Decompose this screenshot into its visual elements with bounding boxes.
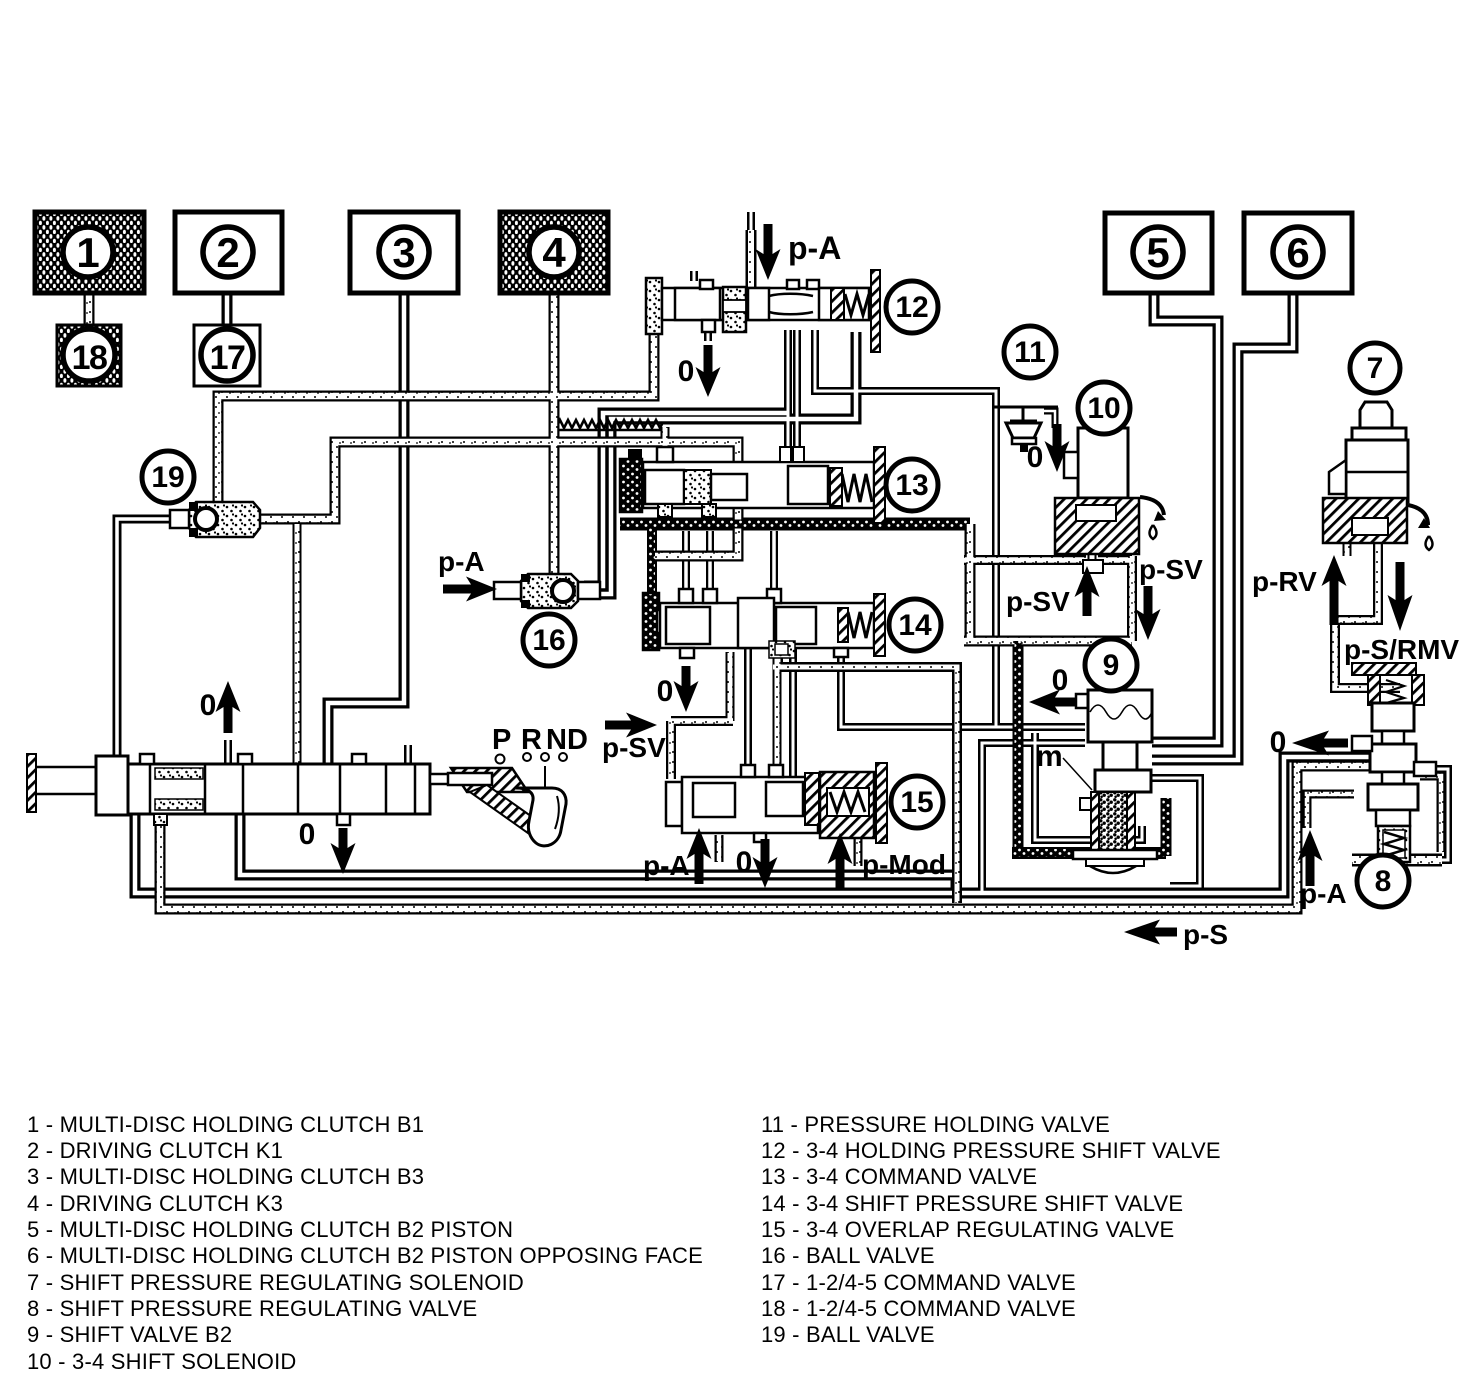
svg-text:0: 0: [200, 689, 217, 722]
valve8 right white loop: [1416, 769, 1448, 860]
stipple strips: [155, 768, 203, 779]
svg-text:D: D: [567, 724, 588, 756]
svg-text:18 - 1-2/4-5 COMMAND VALVE: 18 - 1-2/4-5 COMMAND VALVE: [761, 1296, 1076, 1321]
valve14 to valve15 B: [789, 648, 797, 777]
valve14 right stipple drop: [773, 655, 782, 772]
solenoid 7: [1323, 402, 1433, 550]
wire valve13 to valve14 A: [682, 531, 690, 594]
valve12 top stubs: [690, 271, 698, 281]
label circle 12: [886, 281, 938, 333]
arrow p-SV up: [1075, 566, 1100, 616]
svg-text:19 - BALL VALVE: 19 - BALL VALVE: [761, 1322, 935, 1347]
wire box5 to valve9: [1152, 293, 1218, 742]
svg-text:0: 0: [657, 675, 674, 708]
svg-text:7 - SHIFT PRESSURE REGULATING: 7 - SHIFT PRESSURE REGULATING SOLENOID: [27, 1270, 524, 1295]
lever quadrant: [516, 788, 566, 846]
label circle 1: [63, 227, 113, 277]
wire box2-box17: [222, 293, 233, 325]
svg-text:3: 3: [392, 229, 415, 276]
svg-text:8: 8: [1375, 865, 1392, 898]
spring housing valve 15: [820, 772, 874, 838]
svg-text:6 - MULTI-DISC HOLDING CLUTCH: 6 - MULTI-DISC HOLDING CLUTCH B2 PISTON …: [27, 1243, 703, 1268]
circled numbers: [63, 227, 1409, 907]
wire valve13 to valve14 C: [770, 531, 778, 594]
valve 8: [1352, 663, 1436, 862]
svg-text:p-SV: p-SV: [1139, 554, 1203, 585]
svg-text:P: P: [492, 724, 511, 756]
svg-text:p-S/RMV: p-S/RMV: [1344, 634, 1459, 665]
svg-text:19: 19: [151, 461, 184, 494]
svg-text:15: 15: [900, 786, 933, 819]
label circle 6: [1273, 227, 1323, 277]
svg-text:1 - MULTI-DISC HOLDING CLUTCH: 1 - MULTI-DISC HOLDING CLUTCH B1: [27, 1112, 424, 1137]
clutch box B2 opposing: [1244, 213, 1352, 293]
bottom bus B: [135, 757, 1372, 893]
svg-text:0: 0: [736, 846, 753, 879]
p-A feed valve12: [746, 230, 757, 289]
clutch box K3: [500, 212, 608, 293]
svg-text:p-A: p-A: [438, 546, 485, 577]
valve12 drain port: [702, 320, 715, 332]
clutch box B3: [350, 212, 458, 293]
wire valve14 to valve9 left: [841, 655, 1085, 727]
svg-text:p-SV: p-SV: [602, 732, 666, 763]
solenoid10 output stub: [1088, 552, 1097, 572]
svg-text:p-A: p-A: [1300, 878, 1347, 909]
WIRES-STIPPLE: [89, 212, 1448, 909]
wire enclosure to valve9 bottom: [1013, 641, 1024, 852]
wire channel interiors (stipple fill): [89, 230, 1442, 909]
valve9 inner U: [1035, 733, 1142, 840]
arrow down solenoid7 right: [1388, 562, 1413, 631]
arrow 0 down manual valve: [331, 828, 356, 874]
svg-text:m: m: [1036, 740, 1063, 773]
drip arrow solenoid 7: [1408, 505, 1428, 525]
manual valve open stub: [404, 745, 412, 764]
label circle 14: [889, 599, 941, 651]
svg-text:0: 0: [678, 355, 695, 388]
lever arm: [470, 785, 552, 843]
wire valve19 bottom to manual valve: [293, 524, 302, 764]
arrow p-A top: [756, 224, 781, 280]
manual valve 0 stub: [224, 740, 232, 764]
wire valve12 to valve13 B: [793, 330, 801, 447]
wire valve9 left lower to bus: [982, 743, 1085, 893]
svg-text:4 - DRIVING CLUTCH K3: 4 - DRIVING CLUTCH K3: [27, 1191, 283, 1216]
p-SV enclosure top right: [1098, 555, 1132, 565]
svg-text:R: R: [521, 724, 542, 756]
p-SV enclosure bottom: [964, 636, 1132, 647]
valve9 bottom channel: [1012, 847, 1166, 859]
valve 14 body: [643, 589, 885, 658]
clutch box B2 piston: [1105, 213, 1212, 293]
label circle 5: [1133, 227, 1183, 277]
label circle 2: [203, 227, 253, 277]
wire valve12 area to ball16 outlet: [584, 413, 788, 586]
svg-text:p-A: p-A: [788, 230, 841, 266]
svg-text:17 - 1-2/4-5 COMMAND VALVE: 17 - 1-2/4-5 COMMAND VALVE: [761, 1270, 1076, 1295]
label circle 17: [201, 329, 253, 381]
ball valve 16: [494, 574, 600, 608]
svg-text:15 - 3-4 OVERLAP REGULATING VA: 15 - 3-4 OVERLAP REGULATING VALVE: [761, 1217, 1174, 1242]
end wall valve 15: [876, 763, 887, 843]
ball valve 19: [170, 502, 260, 537]
valve 12 body: [646, 270, 880, 352]
manual valve: [27, 753, 567, 846]
svg-text:0: 0: [1027, 441, 1044, 474]
solenoid7 p-S/RMV channel to valve8: [1335, 540, 1400, 688]
arrow 0 below valve12: [696, 345, 721, 397]
wire double-line interiors (white fill): [117, 212, 1448, 894]
valve12 drain stub: [704, 320, 712, 341]
valve11 feed: [815, 330, 996, 727]
wire box3 to manual valve: [328, 293, 404, 764]
svg-text:5: 5: [1146, 229, 1169, 276]
svg-text:11: 11: [1014, 336, 1046, 369]
end wall valve 12: [871, 270, 880, 352]
svg-text:10 - 3-4 SHIFT SOLENOID: 10 - 3-4 SHIFT SOLENOID: [27, 1349, 297, 1374]
arrow 0 valve11 drain: [1045, 424, 1070, 472]
wire valve12 to valve13 A: [784, 330, 792, 447]
end wall valve 13: [874, 447, 885, 523]
stipple channel outlines: [89, 230, 1442, 909]
p-SV enclosure top left: [964, 555, 1086, 565]
svg-text:p-RV: p-RV: [1252, 566, 1317, 597]
spring housing valve8: [1378, 826, 1410, 862]
m block: [1091, 792, 1099, 856]
label circle 11: [1004, 326, 1056, 378]
wire box1-box18: [84, 293, 95, 325]
svg-text:N: N: [546, 724, 567, 756]
svg-text:13: 13: [895, 469, 928, 502]
valve19 left to manual valve: [117, 519, 172, 764]
arrow p-S left: [1124, 920, 1177, 945]
selector dots: [496, 755, 505, 764]
svg-text:5 - MULTI-DISC HOLDING CLUTCH: 5 - MULTI-DISC HOLDING CLUTCH B2 PISTON: [27, 1217, 513, 1242]
arrow 0 up manual valve: [216, 681, 241, 733]
valve8 bottom base: [1352, 854, 1442, 867]
end wall valve 14: [874, 594, 885, 656]
svg-text:0: 0: [1052, 664, 1069, 697]
svg-text:9: 9: [1103, 649, 1120, 682]
spring valve 13: [842, 474, 872, 502]
p-A pipe tip: [747, 212, 755, 232]
valve9 right lower line: [1152, 778, 1200, 886]
svg-text:1: 1: [76, 229, 99, 276]
svg-text:9 - SHIFT VALVE B2: 9 - SHIFT VALVE B2: [27, 1322, 232, 1347]
valve11 right drain: [1044, 411, 1055, 428]
svg-text:p-SV: p-SV: [1006, 586, 1070, 617]
H5 drop to valve14 jacket: [647, 526, 657, 598]
valve8 p-A stub: [1307, 794, 1354, 828]
arrow p-SV down: [1136, 586, 1161, 640]
wire H5 drop to p-SV enclosure: [965, 524, 976, 641]
solenoid7 left stub: [1343, 528, 1352, 556]
label circle 16: [523, 614, 575, 666]
zigzag wire drop to valve13: [661, 427, 670, 452]
wire valve12 right port to ball16 nest: [584, 332, 856, 594]
valve15 p-A stub: [715, 835, 724, 862]
valve 15 body: [666, 763, 887, 843]
svg-text:4: 4: [542, 229, 566, 276]
svg-text:p-A: p-A: [643, 850, 690, 881]
label circle 18: [63, 329, 115, 381]
label circle 9: [1085, 639, 1137, 691]
svg-text:p-S: p-S: [1183, 919, 1228, 950]
rod: [36, 767, 103, 794]
arrow 0 left valve8: [1292, 731, 1348, 756]
valve9 bottom channel right riser: [1161, 798, 1172, 856]
svg-text:7: 7: [1367, 352, 1384, 385]
label circle 3: [379, 227, 429, 277]
svg-text:p-Mod: p-Mod: [862, 849, 946, 880]
label circle 4: [529, 227, 579, 277]
clutch box K1: [175, 212, 282, 293]
svg-text:10: 10: [1087, 392, 1120, 425]
wire valve19 right to bus H2: [260, 442, 738, 556]
arrow p-A up valve15: [687, 828, 712, 884]
svg-text:3 - MULTI-DISC HOLDING CLUTCH: 3 - MULTI-DISC HOLDING CLUTCH B3: [27, 1164, 424, 1189]
svg-text:2 - DRIVING CLUTCH K1: 2 - DRIVING CLUTCH K1: [27, 1138, 283, 1163]
arrow p-SV right: [605, 713, 657, 738]
arrow p-RV up: [1322, 555, 1347, 625]
top tabs: [140, 754, 154, 764]
wire riser to valve15 left: [666, 721, 676, 779]
label circle 19: [142, 451, 194, 503]
valve 13 body: [620, 447, 885, 523]
valve 11 symbol: [994, 407, 1058, 452]
wire valve13 to valve14 B: [706, 531, 714, 594]
label circle 15: [891, 776, 943, 828]
svg-text:0: 0: [299, 818, 316, 851]
clutch box B1: [35, 212, 144, 293]
spring valve 12: [845, 294, 869, 315]
arrow p-A right valve16: [443, 577, 497, 602]
svg-text:11 - PRESSURE HOLDING VALVE: 11 - PRESSURE HOLDING VALVE: [761, 1112, 1110, 1137]
selector line: [544, 766, 546, 789]
svg-text:18: 18: [72, 339, 107, 377]
svg-text:14 - 3-4 SHIFT PRESSURE SHIFT: 14 - 3-4 SHIFT PRESSURE SHIFT VALVE: [761, 1191, 1183, 1216]
svg-text:2: 2: [216, 229, 239, 276]
p-S bus: [160, 766, 1372, 909]
box 17: [194, 325, 260, 386]
bottom bus A: [240, 814, 956, 894]
valve8 right stipple loop: [1420, 776, 1441, 852]
LEGEND: [27, 1112, 1221, 1374]
p-SV stub into valve15 riser: [671, 716, 733, 726]
valve14 to valve15 A: [744, 648, 752, 777]
p-SV enclosure right: [1127, 556, 1137, 641]
wire box6 to valve9: [1152, 293, 1293, 760]
p-Mod stub: [854, 838, 863, 866]
spring valve 14: [848, 612, 872, 638]
drip arrow solenoid10: [1140, 497, 1164, 515]
label circle 7: [1350, 343, 1400, 393]
svg-text:8 - SHIFT PRESSURE REGULATING: 8 - SHIFT PRESSURE REGULATING VALVE: [27, 1296, 477, 1321]
lever collar: [451, 768, 528, 792]
svg-text:16: 16: [532, 624, 565, 657]
arrow p-A up valve8: [1298, 830, 1323, 886]
wire bus H1 to valve12 left / valve19 top: [218, 330, 654, 502]
solenoid 10: [1055, 428, 1166, 573]
arrow 0 valve14 drain: [674, 666, 699, 712]
label circle 13: [886, 459, 938, 511]
svg-text:14: 14: [898, 609, 932, 642]
svg-text:12 - 3-4 HOLDING PRESSURE SHIF: 12 - 3-4 HOLDING PRESSURE SHIFT VALVE: [761, 1138, 1221, 1163]
wire box4 to ball valve 16: [549, 293, 560, 577]
bottom stubs: [154, 814, 167, 825]
wire valve14 left drain riser: [726, 652, 735, 721]
arrow 0 left valve9: [1029, 690, 1075, 715]
svg-text:16 - BALL VALVE: 16 - BALL VALVE: [761, 1243, 935, 1268]
svg-text:0: 0: [1270, 726, 1287, 759]
label circle 10: [1078, 382, 1130, 434]
rod to lever: [430, 774, 452, 784]
land dividers: [150, 764, 415, 814]
arrow 0 down valve15: [753, 839, 778, 888]
svg-text:13 - 3-4 COMMAND VALVE: 13 - 3-4 COMMAND VALVE: [761, 1164, 1037, 1189]
svg-text:12: 12: [895, 291, 928, 324]
m pointer line: [1063, 758, 1092, 790]
valve 9: [1073, 690, 1157, 873]
svg-text:6: 6: [1286, 229, 1309, 276]
thin drain line to p-S bus: [773, 655, 957, 903]
label circle 8: [1357, 855, 1409, 907]
box 18: [57, 325, 121, 386]
svg-text:17: 17: [210, 339, 245, 377]
wire bus H5 below valve13: [620, 518, 970, 531]
arrow p-Mod up: [828, 833, 853, 888]
flange wall: [27, 754, 36, 812]
